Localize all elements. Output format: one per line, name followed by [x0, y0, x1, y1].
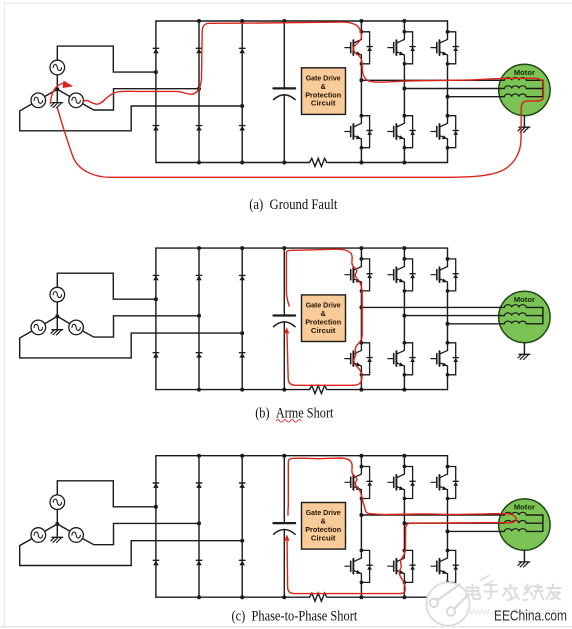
svg-text:(c) Phase-to-Phase Short: (c) Phase-to-Phase Short [232, 608, 358, 624]
svg-text:EEChina.com: EEChina.com [494, 608, 567, 624]
svg-text:(a) Ground Fault: (a) Ground Fault [249, 197, 337, 213]
svg-text:(b) Arme Short: (b) Arme Short [255, 406, 333, 422]
